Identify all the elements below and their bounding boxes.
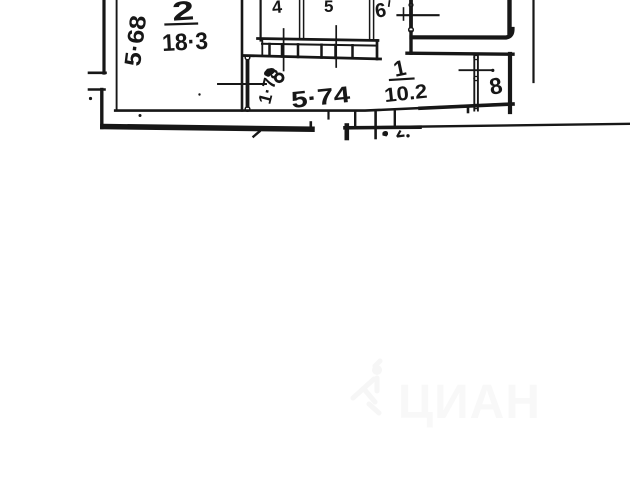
svg-text:2: 2 — [171, 0, 195, 27]
door jamb hallway: tick line — [218, 83, 266, 85]
wire: long thin vertical below label 4 — [283, 29, 285, 71]
apostrophe mark near 6 — [388, 1, 391, 6]
stray dot near room 2 — [198, 93, 200, 95]
dot after cut digit 4 — [406, 134, 409, 137]
stray check mark below bottom wall — [254, 132, 260, 137]
door jamb hallway: upper hinge circle — [245, 55, 250, 60]
ink blob on 1.78 text (8 loop) — [263, 66, 283, 81]
wire: long thin vertical below label 5 — [335, 26, 337, 67]
cut digit 4 at bottom edge — [397, 131, 405, 137]
door jamb room 6: top bar stub — [409, 0, 413, 3]
svg-text:4: 4 — [271, 0, 283, 17]
svg-text:5: 5 — [324, 0, 333, 16]
wire: room 8 right wall — [508, 54, 512, 112]
closet band right edge — [376, 41, 379, 60]
svg-text:18·3: 18·3 — [161, 28, 208, 57]
svg-text:10.2: 10.2 — [383, 81, 428, 107]
closet band top line — [258, 39, 379, 41]
wire: room 2 / corridor bottom inner wall — [115, 104, 513, 111]
closet band left edge — [261, 39, 263, 56]
small bar below wall near room 8 — [467, 106, 470, 112]
wire: big room bottom wall — [412, 29, 513, 38]
wire: room 4 left wall — [260, 0, 262, 41]
wire: right outer boundary vertical — [532, 0, 534, 82]
stray dot near bottom wall — [139, 114, 142, 117]
closet band dividers — [270, 44, 353, 58]
fraction bar of label 2 — [166, 24, 198, 25]
closet band bottom line — [244, 56, 381, 60]
fraction bar of label 1 — [390, 79, 414, 81]
wire: left balcony outer wall vertical — [102, 0, 105, 73]
wire: porch vertical 2 — [354, 111, 356, 127]
door jamb room 8: tick line — [460, 69, 493, 71]
wire: lower right long line — [345, 124, 630, 128]
tick end dot — [491, 69, 494, 72]
wire: bottom outer thick wall — [103, 127, 312, 130]
wire: wall joint below jamb — [409, 32, 412, 53]
door jamb room 6: short left bar — [403, 8, 405, 20]
wire: porch vertical 3 — [374, 111, 377, 138]
door jamb hallway: lower hinge circle — [245, 107, 250, 112]
wire: room 2 left inner wall — [116, 0, 118, 110]
door jamb room 6: upper hinge circle — [409, 3, 413, 7]
wire: lower-left outer wall vertical — [100, 90, 103, 128]
wire: porch left thick vertical — [344, 126, 349, 139]
cut digit 2 at bottom edge — [382, 131, 388, 137]
door jamb room 6: tick line — [398, 14, 439, 16]
wire: big room right wall — [507, 0, 511, 33]
stray dot left edge — [89, 97, 92, 100]
wire: room 8 bottom thick overlay — [420, 104, 513, 108]
closet band cells top line — [262, 44, 377, 46]
wire: corridor top wall — [407, 53, 513, 54]
watermark running man icon — [353, 361, 382, 413]
wire: rooms 4/5 partition double line — [300, 0, 304, 39]
wire: bottom wall end up-tick — [309, 123, 312, 130]
wire: inner wall down-tick — [327, 111, 329, 119]
door jamb room 8: double line — [474, 55, 478, 111]
wire: wall between room 2 and hallway — [241, 0, 244, 111]
wire: lower line thick left part — [345, 125, 420, 129]
wire: porch vertical 4 — [394, 112, 396, 128]
door jamb room 6: lower hinge circle — [409, 28, 414, 33]
svg-text:ЦИАН: ЦИАН — [398, 376, 541, 429]
wire: rooms 5/6 partition double line — [370, 0, 374, 39]
door jamb room 8: hinge circles — [474, 55, 478, 59]
door jamb room 6: main bar — [409, 7, 413, 27]
wire: balcony bracket lower horizontal — [89, 88, 105, 91]
door jamb hallway: upper bar — [246, 61, 250, 82]
door jamb hallway: lower bar — [246, 87, 250, 107]
wire: balcony bracket upper horizontal — [89, 72, 106, 75]
